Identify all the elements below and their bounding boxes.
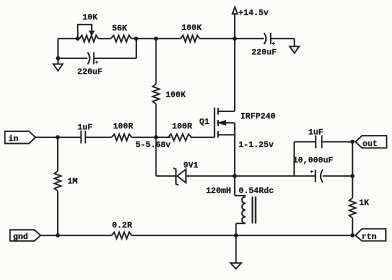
svg-text:1M: 1M bbox=[68, 176, 78, 186]
svg-text:9V1: 9V1 bbox=[183, 161, 198, 171]
svg-text:gnd: gnd bbox=[13, 232, 28, 242]
svg-text:in: in bbox=[8, 134, 18, 144]
svg-text:0.2R: 0.2R bbox=[112, 220, 133, 230]
svg-text:100K: 100K bbox=[166, 90, 187, 100]
svg-text:out: out bbox=[363, 139, 378, 149]
svg-text:1uF: 1uF bbox=[78, 122, 93, 132]
svg-text:1K: 1K bbox=[359, 198, 370, 208]
svg-text:10,000uF: 10,000uF bbox=[293, 155, 333, 165]
svg-text:IRFP240: IRFP240 bbox=[240, 112, 275, 122]
svg-text:220uF: 220uF bbox=[252, 47, 277, 57]
svg-text:100K: 100K bbox=[182, 23, 203, 33]
svg-text:220uF: 220uF bbox=[77, 67, 102, 77]
svg-text:+14.5v: +14.5v bbox=[238, 8, 268, 18]
svg-text:10K: 10K bbox=[83, 12, 99, 22]
svg-text:5-5.68v: 5-5.68v bbox=[136, 140, 171, 150]
svg-text:100R: 100R bbox=[113, 122, 134, 132]
svg-text:0.54Rdc: 0.54Rdc bbox=[239, 186, 274, 196]
svg-text:100R: 100R bbox=[172, 122, 193, 132]
svg-text:56K: 56K bbox=[112, 23, 128, 33]
svg-text:1uF: 1uF bbox=[308, 128, 323, 138]
svg-text:120mH: 120mH bbox=[206, 186, 231, 196]
svg-text:1-1.25v: 1-1.25v bbox=[239, 140, 274, 150]
svg-text:Q1: Q1 bbox=[199, 117, 209, 127]
svg-text:rtn: rtn bbox=[362, 232, 377, 242]
